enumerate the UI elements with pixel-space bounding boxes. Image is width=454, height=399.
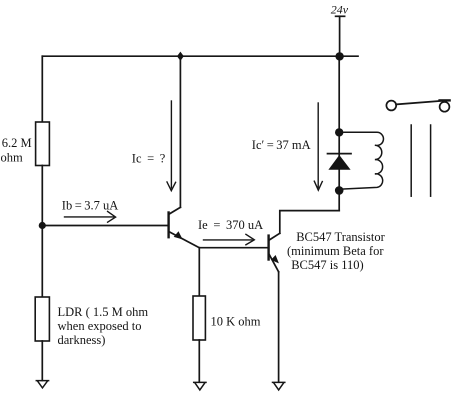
svg-text:24v: 24v [331,2,349,16]
arrow Ic (down) [167,101,176,191]
ground (below 10K) [194,382,206,390]
svg-text:Ib = 3.7 uA: Ib = 3.7 uA [62,199,119,213]
svg-text:when exposed to: when exposed to [58,319,142,333]
wire 24v terminal to rail [339,16,341,56]
ground (below Q2 emitter) [273,382,285,390]
resistor 10K ohm [193,296,205,340]
node junction dot diode top [335,128,343,136]
wire Q2 emitter to ground [278,272,280,382]
node 24v terminal bar [336,15,345,17]
wire left branch down from rail [41,56,43,122]
wire rail to Q1 collector [179,56,181,207]
resistor 6.2M ohm [36,122,50,166]
node junction diamond on rail [177,52,184,61]
relay coil K1 [339,132,383,189]
ground (below LDR) [36,381,48,388]
diode D1 flyback [328,154,352,170]
arrow Ib (right) [65,211,116,222]
wire top supply rail [42,55,358,57]
node junction base/LDR [39,222,46,229]
arrow Ic' (down) [314,103,322,190]
svg-text:10 K ohm: 10 K ohm [211,315,261,329]
wire 10K to ground [198,340,200,382]
svg-text:BC547 Transistor: BC547 Transistor [296,230,385,244]
svg-text:darkness): darkness) [58,333,106,347]
wire Q2 collector up and right to diode node [280,211,339,234]
wire node to 10K resistor [198,248,200,296]
wire main right vertical from rail to collector corner [338,56,340,210]
svg-text:Ic′ = 37 mA: Ic′ = 37 mA [252,138,311,152]
transistor Q1 [169,207,200,247]
node junction dot at rail/24v [335,52,343,60]
svg-text:6.2 M: 6.2 M [2,136,32,150]
svg-text:LDR ( 1.5 M ohm: LDR ( 1.5 M ohm [58,305,149,319]
svg-text:Ie = 370 uA: Ie = 370 uA [198,218,263,232]
svg-text:Ic = ?: Ic = ? [132,152,166,166]
relay contact poles [410,125,412,196]
LDR (1.5 M ohm) [35,297,49,341]
transistor Q2 BC547 [269,233,280,271]
svg-text:ohm: ohm [1,151,24,165]
wire LDR to ground [41,341,43,380]
node junction dot diode bottom [335,186,344,195]
svg-text:BC547 is 110): BC547 is 110) [291,258,363,272]
svg-text:(minimum Beta for: (minimum Beta for [287,244,384,258]
wire Q1 emitter to Q2 base [199,247,268,249]
switch S1 (relay contact lever) [386,100,449,111]
arrow Ie (right) [204,234,255,245]
wire resistor to LDR node [41,166,43,298]
wire base of Q1 [42,225,167,227]
